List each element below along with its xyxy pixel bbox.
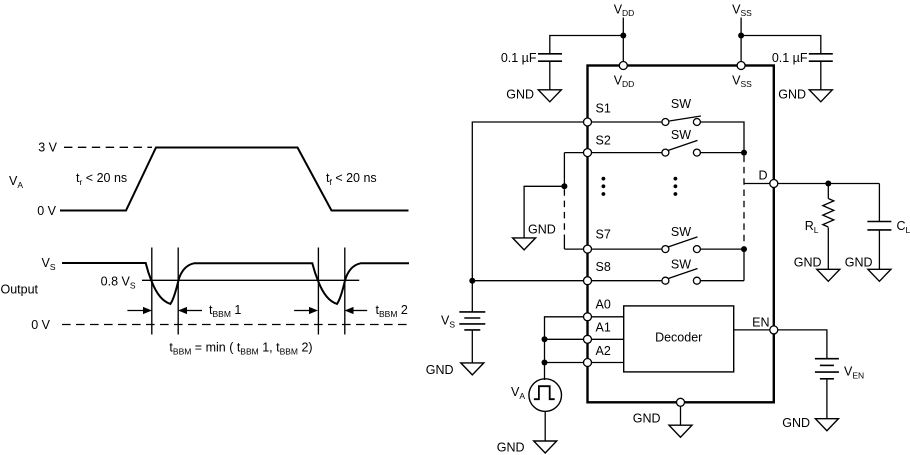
wire A0 to decoder (592, 316, 624, 318)
pin S1 (584, 118, 592, 126)
svg-text:EN: EN (752, 316, 769, 330)
pin GND (box bottom) (677, 398, 685, 406)
measurement vertical line 4 (344, 248, 346, 335)
svg-text:CL: CL (897, 219, 910, 235)
svg-text:A1: A1 (596, 321, 611, 335)
svg-text:SW: SW (671, 258, 691, 272)
ground (S tap) (513, 238, 536, 250)
svg-text:D: D (758, 169, 767, 183)
svg-text:GND: GND (528, 223, 556, 237)
wire box GND (680, 406, 682, 425)
junction dot load (825, 181, 831, 187)
VA input waveform (60, 148, 409, 211)
measurement vertical line 2 (177, 248, 179, 335)
VS output waveform (62, 263, 409, 304)
source VS battery (459, 312, 485, 330)
junction dot A2 (542, 360, 548, 366)
wire EN to VEN (778, 330, 827, 358)
wire VSS vertical (740, 18, 742, 65)
arrow into line 3 (294, 310, 310, 312)
wire bus S7 to S8 (743, 249, 745, 281)
DUT box (588, 66, 774, 403)
wire VS to ground (471, 330, 473, 363)
wire to bypass cap C2 (741, 36, 821, 54)
ground (VEN) (815, 419, 838, 431)
svg-text:GND: GND (778, 88, 806, 102)
0V dashed reference line (62, 324, 409, 326)
wire S7 left stub (564, 248, 583, 250)
svg-text:0 V: 0 V (31, 318, 50, 332)
3V reference dashed line (64, 146, 152, 148)
ellipsis dots right (674, 177, 678, 196)
svg-text:SW: SW (671, 128, 691, 142)
pin S8 (584, 277, 592, 285)
left inner vertical (S2 to S7) (563, 153, 565, 187)
wire A0 left (545, 317, 584, 379)
svg-text:GND: GND (497, 441, 525, 455)
svg-text:A0: A0 (596, 298, 611, 312)
svg-text:S8: S8 (596, 260, 611, 274)
wire A1 left (545, 338, 584, 340)
wire S1 left rail (472, 122, 583, 312)
arrow into line 2 (186, 310, 202, 312)
svg-text:RL: RL (805, 219, 819, 235)
wire to bypass cap C1 (550, 36, 624, 54)
arrow into line 4 (353, 310, 368, 312)
ground (box) (669, 425, 692, 437)
arrow into line 1 (127, 310, 144, 312)
svg-text:VSS: VSS (732, 74, 752, 90)
svg-text:GND: GND (426, 363, 454, 377)
wire S7 to switch (592, 248, 662, 250)
wire S2 left stub (564, 152, 583, 154)
svg-text:GND: GND (782, 416, 810, 430)
pin D (770, 180, 778, 188)
junction dot VSS (738, 33, 744, 39)
svg-text:SW: SW (671, 225, 691, 239)
junction dot VDD (620, 33, 626, 39)
wire VDD vertical (622, 18, 624, 65)
switch SW2 (open) (662, 149, 669, 156)
ground (VA) (534, 441, 557, 453)
ellipsis dots left (602, 177, 606, 196)
svg-text:0.1 µF: 0.1 µF (772, 51, 808, 65)
svg-text:S2: S2 (596, 134, 611, 148)
svg-text:VDD: VDD (614, 74, 635, 90)
svg-text:VA: VA (511, 385, 525, 401)
pin VSS (737, 62, 745, 70)
pin S7 (584, 245, 592, 253)
svg-text:GND: GND (506, 88, 534, 102)
dashed inner vertical (563, 189, 565, 237)
junction dot A1 (542, 336, 548, 342)
pin EN (770, 326, 778, 334)
wire D to load (778, 183, 880, 185)
wire A2 left (545, 362, 584, 364)
svg-text:SW: SW (671, 97, 691, 111)
svg-text:GND: GND (794, 256, 822, 270)
pin A0 (584, 313, 592, 321)
svg-text:Decoder: Decoder (655, 331, 702, 345)
wire A1 to decoder (592, 338, 624, 340)
junction dot left rail (469, 278, 475, 284)
measurement vertical line 1 (151, 248, 153, 335)
wire RL to ground (827, 227, 829, 269)
svg-text:tBBM 1: tBBM 1 (209, 303, 241, 319)
pin A2 (584, 359, 592, 367)
svg-text:3 V: 3 V (38, 141, 57, 155)
wire bus to pin D (744, 183, 770, 185)
svg-text:VSS: VSS (732, 3, 752, 19)
wire GND tap (524, 186, 564, 238)
wire VA to ground (544, 411, 546, 441)
svg-text:VS: VS (41, 256, 55, 272)
ground (CL) (868, 269, 891, 281)
source VA pulse generator (544, 379, 546, 380)
wire SW8 to output bus (700, 280, 744, 282)
dashed output bus (743, 156, 745, 247)
decoder block (624, 306, 734, 372)
capacitor C1 0.1 uF (538, 54, 562, 61)
junction dot GND tap (561, 183, 567, 189)
source VEN battery (815, 359, 839, 379)
junction dot output bus top (741, 150, 747, 156)
pin VDD (619, 62, 627, 70)
svg-text:0 V: 0 V (37, 204, 56, 218)
wire S2 to switch (592, 152, 662, 154)
svg-text:VA: VA (9, 174, 23, 190)
capacitor CL (878, 184, 880, 222)
svg-text:VDD: VDD (614, 3, 635, 19)
svg-text:S1: S1 (596, 102, 611, 116)
ground (left cap) (538, 90, 561, 102)
svg-text:S7: S7 (596, 228, 611, 242)
svg-text:Output: Output (1, 283, 39, 297)
wire decoder to EN (734, 329, 770, 331)
switch SW7 (open) (662, 246, 669, 253)
svg-text:0.1 µF: 0.1 µF (501, 51, 537, 65)
svg-text:tr < 20 ns: tr < 20 ns (76, 171, 127, 187)
switch SW1 (closed) (662, 119, 669, 126)
svg-text:VS: VS (441, 314, 455, 330)
measurement vertical line 3 (317, 248, 319, 335)
wire S1 to switch (592, 121, 662, 123)
svg-text:tBBM 2: tBBM 2 (376, 303, 408, 319)
pin S2 (584, 149, 592, 157)
resistor RL (827, 184, 829, 199)
wire S8 to switch (592, 280, 662, 282)
svg-text:0.8 VS: 0.8 VS (101, 275, 136, 291)
0.8 VS reference line (142, 279, 359, 281)
capacitor C2 0.1 uF (809, 54, 833, 61)
wire VEN to ground (826, 379, 828, 419)
ground (VS) (461, 363, 484, 375)
svg-text:GND: GND (845, 256, 873, 270)
wire SW1 to output bus (700, 122, 744, 153)
svg-text:tf < 20 ns: tf < 20 ns (326, 171, 377, 187)
pin A1 (584, 335, 592, 343)
wire SW7 to output bus (700, 248, 744, 250)
wire A2 to decoder (592, 362, 624, 364)
wire S8 left to rail (472, 280, 583, 282)
svg-text:tBBM = min ( tBBM 1, tBBM 2): tBBM = min ( tBBM 1, tBBM 2) (169, 341, 312, 357)
wire SW2 to output bus (700, 152, 744, 154)
ground (right cap) (809, 90, 832, 102)
switch SW8 (open) (662, 277, 669, 284)
ground (RL) (817, 269, 840, 281)
svg-text:A2: A2 (596, 344, 611, 358)
svg-text:VEN: VEN (844, 365, 864, 381)
junction dot output bus bottom (741, 246, 747, 252)
svg-text:GND: GND (633, 411, 661, 425)
